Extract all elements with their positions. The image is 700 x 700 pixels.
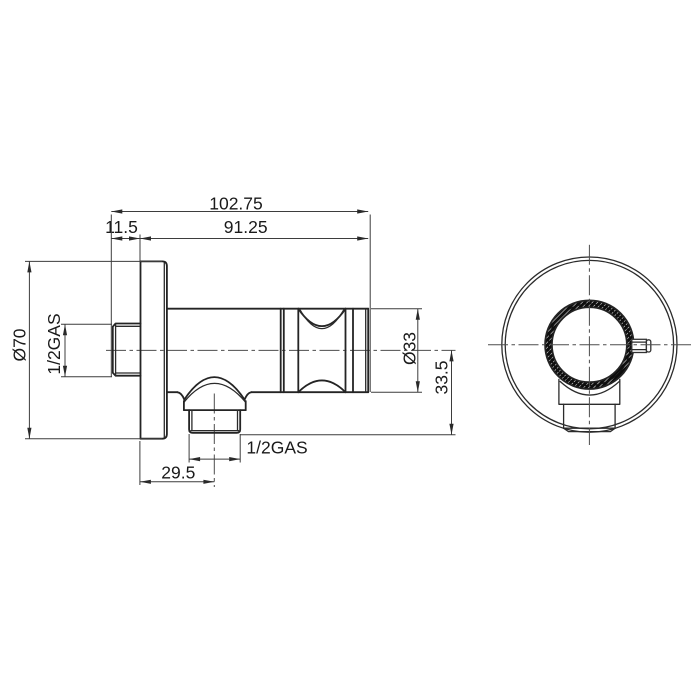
extension line right (102.75 / 91.25): [369, 215, 371, 393]
dimension Ø70: [10, 261, 163, 438]
extension line middle (11.5 / 91.25): [139, 235, 141, 262]
centerline horizontal (side view): [106, 349, 456, 351]
svg-text:102.75: 102.75: [209, 194, 263, 214]
svg-text:29.5: 29.5: [161, 463, 195, 483]
dimension 33.5: [241, 350, 456, 434]
dimension 29.5: [140, 441, 215, 485]
dome arc (front view): [560, 381, 619, 395]
dimension 11.5: [105, 217, 140, 241]
pin (front view): [632, 339, 651, 352]
svg-text:Ø33: Ø33: [400, 332, 420, 365]
flange Ø70 (side view): [141, 261, 167, 438]
extension line left (102.75 / 11.5): [110, 215, 112, 377]
svg-text:33.5: 33.5: [432, 360, 452, 394]
dimension 91.25: [140, 217, 368, 241]
flange inner circle (front view): [505, 260, 673, 428]
holder spool (side view): [281, 309, 353, 393]
wall thread 1/2GAS (side view): [113, 324, 141, 376]
svg-text:91.25: 91.25: [224, 217, 268, 237]
svg-text:1/2GAS: 1/2GAS: [44, 313, 64, 374]
dimension Ø33: [371, 309, 422, 393]
dimension 102.75: [111, 194, 368, 214]
outlet nipple (front view): [564, 404, 616, 431]
outlet upper box (front view): [559, 379, 620, 404]
centerlines (front view): [488, 245, 691, 445]
dimension 1/2GAS outlet: [189, 434, 308, 463]
svg-text:11.5: 11.5: [105, 217, 138, 237]
outlet nipple 1/2GAS (side view): [189, 410, 240, 433]
svg-text:1/2GAS: 1/2GAS: [246, 438, 307, 458]
body tube Ø33 (side view): [167, 309, 368, 393]
centerline outlet vertical (side view): [213, 394, 215, 488]
knurled ring (front view): [545, 300, 634, 389]
outlet dome (side view): [177, 377, 251, 410]
flange outer circle (front view): [502, 257, 677, 432]
dimension 1/2GAS wall thread: [44, 313, 112, 376]
svg-text:Ø70: Ø70: [10, 328, 30, 361]
